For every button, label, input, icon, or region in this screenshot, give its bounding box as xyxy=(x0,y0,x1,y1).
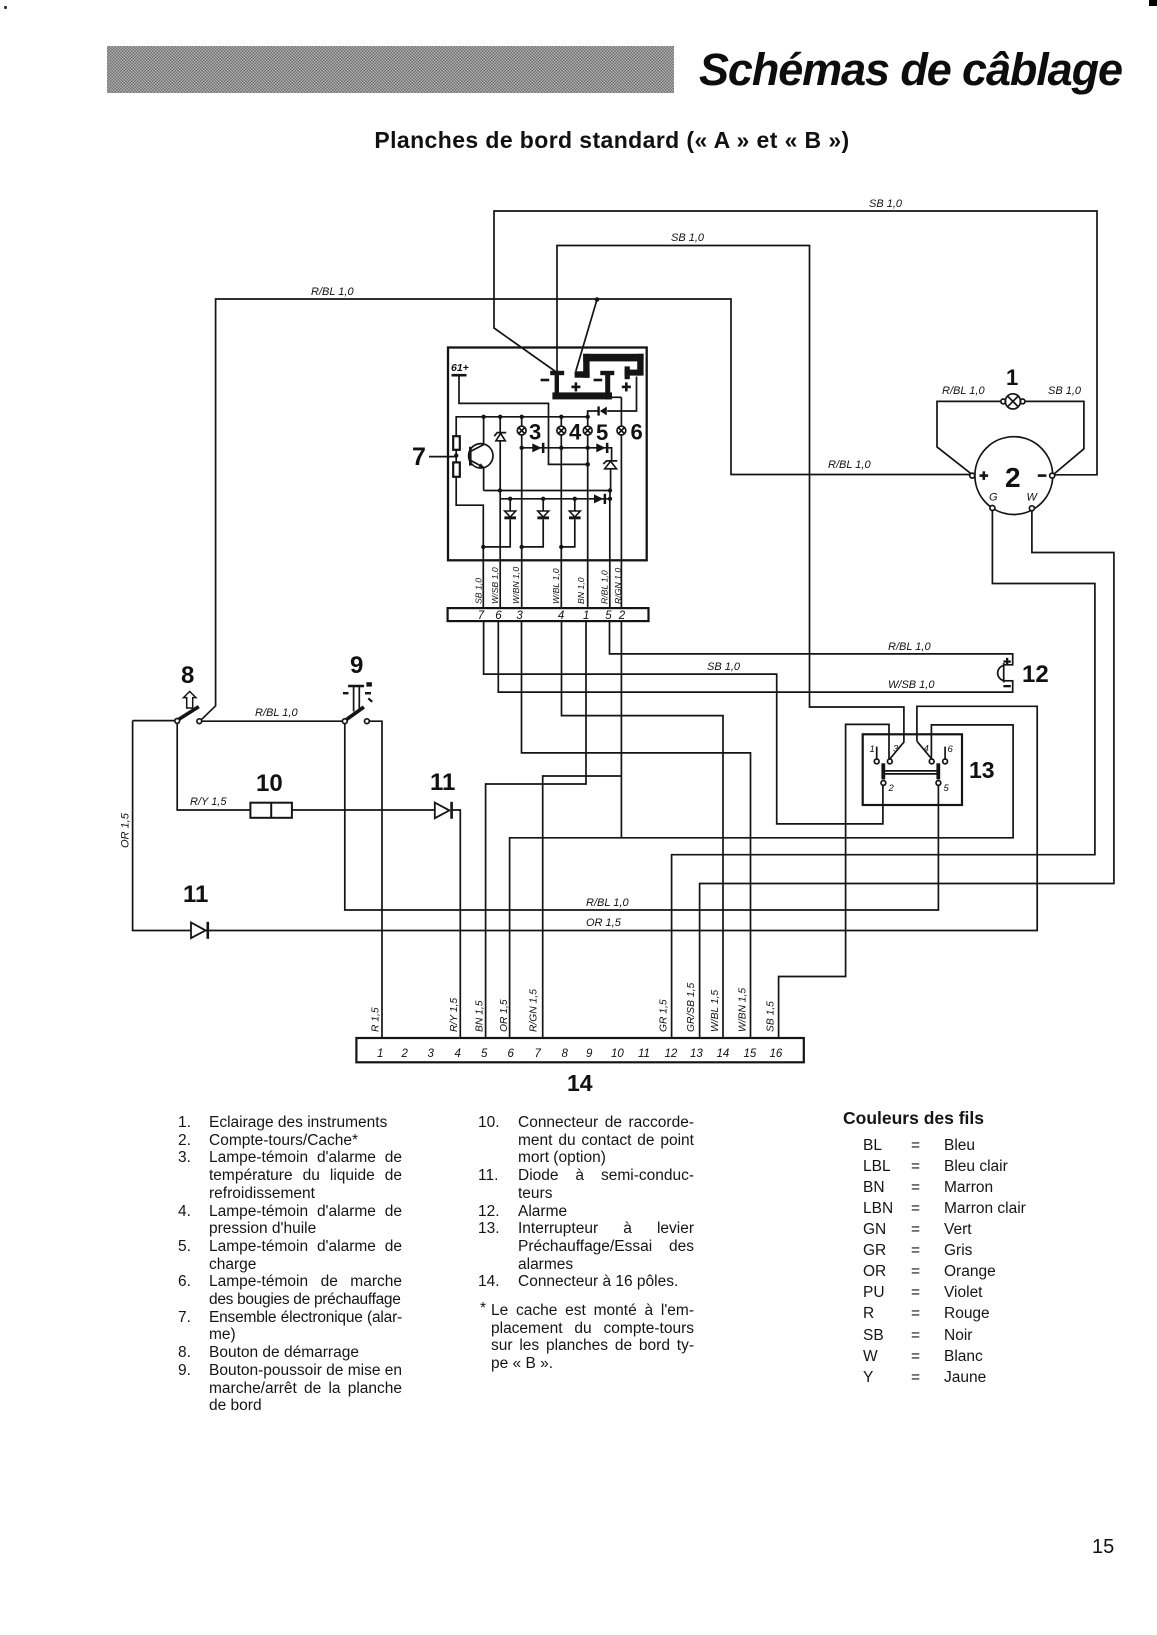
strip 14 pin numbers xyxy=(377,1048,783,1060)
svg-text:W/SB 1,0: W/SB 1,0 xyxy=(888,679,935,691)
bus A horizontal in box 7 xyxy=(456,417,588,436)
svg-text:R/GN 1,5: R/GN 1,5 xyxy=(529,989,540,1032)
junction dot 61+ feed xyxy=(585,462,590,467)
wire R/BL 1,0 switch 9 to switch 13 pin 5 xyxy=(345,724,939,910)
svg-text:W: W xyxy=(1027,492,1039,504)
svg-text:5: 5 xyxy=(944,783,950,794)
bus B2 with diode D6 xyxy=(500,498,610,500)
wire common run left branch to pin3 contact xyxy=(846,724,889,837)
svg-text:11: 11 xyxy=(183,881,208,908)
svg-text:8: 8 xyxy=(181,662,194,689)
svg-text:W/BN 1,0: W/BN 1,0 xyxy=(511,567,521,604)
connector polarity signs xyxy=(541,379,631,392)
wire button 9 to strip14 pin1 R 1,5 xyxy=(369,721,382,1038)
svg-text:R/BL 1,0: R/BL 1,0 xyxy=(255,707,298,719)
indicator lamp 6 xyxy=(617,426,626,435)
wire SB 1,0 second: connector minus to lever tip pin3 of switch 13 xyxy=(557,246,904,742)
wire pin2 R/GN 1,0 down to common run xyxy=(620,621,622,838)
svg-text:1: 1 xyxy=(870,744,875,755)
wire B1 end to B2 end xyxy=(609,491,611,499)
svg-text:9: 9 xyxy=(586,1048,593,1060)
header halftone gray bar xyxy=(107,46,674,93)
svg-text:W/BL 1,5: W/BL 1,5 xyxy=(710,990,721,1032)
resistor R1 xyxy=(453,436,460,450)
svg-text:1: 1 xyxy=(377,1048,383,1060)
wire lamp1 right to alternator minus xyxy=(1025,401,1084,474)
svg-text:9: 9 xyxy=(350,652,363,679)
svg-text:1: 1 xyxy=(1006,365,1018,390)
page number xyxy=(1092,1536,1114,1559)
svg-text:16: 16 xyxy=(770,1048,783,1060)
alarm 12 xyxy=(998,663,1014,683)
diode D2 on B0 xyxy=(532,443,541,452)
svg-text:4: 4 xyxy=(455,1048,461,1060)
indicator lamp row verticals xyxy=(521,417,523,547)
svg-text:SB 1,5: SB 1,5 xyxy=(766,1001,777,1032)
wire W to strip14 pin13 GR/SB 1,5 xyxy=(700,511,1114,1038)
switch 13 pin 5 terminal xyxy=(936,763,941,785)
connector plug half A thick U (minus) xyxy=(550,371,614,400)
svg-text:7: 7 xyxy=(412,443,426,471)
header title xyxy=(699,44,1122,96)
svg-text:2: 2 xyxy=(1005,462,1021,493)
svg-text:R/BL 1,0: R/BL 1,0 xyxy=(586,897,629,909)
legend column 3: wire colours table xyxy=(843,1110,1143,1388)
zener Z2 with leads xyxy=(522,499,549,547)
wire lamp1 left to alternator plus xyxy=(937,401,1001,473)
junction dot on R/BL xyxy=(595,297,600,302)
diode D5a on B0 xyxy=(596,443,605,452)
svg-text:W/SB 1,0: W/SB 1,0 xyxy=(490,567,500,604)
svg-text:2: 2 xyxy=(888,783,895,794)
alarm 12 polarity signs xyxy=(1003,658,1010,688)
zener Z1 with leads xyxy=(483,499,516,547)
svg-text:4: 4 xyxy=(558,610,564,622)
wire pin3 W/BN 1,0 to strip14 pin15 xyxy=(522,621,751,1038)
wire pin1 BN 1,0 to strip14 pin5 xyxy=(486,621,586,1038)
corner registration mark top-right xyxy=(1149,0,1157,6)
wire pin5 R/BL 1,0 to alarm plus xyxy=(610,621,1013,665)
alternator terminal signs xyxy=(980,471,1047,480)
wire R1-R2 junction to base xyxy=(455,450,457,463)
subtitle xyxy=(278,127,946,154)
svg-text:6: 6 xyxy=(631,420,643,445)
diode 11 on OR wire xyxy=(191,922,208,939)
switch 13 pin 6 xyxy=(943,747,948,764)
legend column 2 xyxy=(478,1114,694,1373)
indicator lamp 5 xyxy=(583,426,592,435)
wire SB 1,5 strip14 pin16 to common run xyxy=(779,838,846,1038)
svg-text:OR 1,5: OR 1,5 xyxy=(120,812,132,848)
wire SB 1,0 top: connector minus to alternator minus xyxy=(494,211,1097,475)
svg-text:1: 1 xyxy=(583,610,589,622)
mid connector strip of unit 7 xyxy=(448,608,649,621)
svg-text:4: 4 xyxy=(569,420,582,445)
strip 14 rotated wire labels xyxy=(371,983,777,1032)
svg-text:R/BL 1,0: R/BL 1,0 xyxy=(942,385,985,397)
bus B1 xyxy=(484,490,610,492)
wire R/BL 1,0 between buttons 8 and 9 xyxy=(202,720,343,722)
svg-text:SB 1,0: SB 1,0 xyxy=(1048,385,1082,397)
svg-text:13: 13 xyxy=(690,1048,703,1060)
wire pin4 W/BL 1,0 to strip14 pin14 xyxy=(562,621,724,1038)
svg-text:14: 14 xyxy=(717,1048,730,1060)
svg-text:13: 13 xyxy=(969,757,995,783)
svg-text:R/BL 1,0: R/BL 1,0 xyxy=(888,641,931,653)
start button 8 xyxy=(133,691,202,723)
wire from 61+ to lamp5 line xyxy=(459,375,588,464)
svg-text:SB 1,0: SB 1,0 xyxy=(671,232,705,244)
svg-text:3: 3 xyxy=(516,610,523,622)
pin exit wires to connector strip xyxy=(482,547,484,608)
diode D3 cathode-left at connector feed xyxy=(588,377,637,417)
switch 13 enclosure xyxy=(863,734,962,805)
svg-text:7: 7 xyxy=(478,610,485,622)
svg-text:R 1,5: R 1,5 xyxy=(371,1007,382,1032)
svg-text:3: 3 xyxy=(428,1048,435,1060)
svg-text:G: G xyxy=(989,492,998,504)
resistor R2 xyxy=(453,462,460,476)
switch 13 pin 3 with lever xyxy=(887,742,904,764)
svg-text:R/BL 1,0: R/BL 1,0 xyxy=(311,286,354,298)
svg-text:6: 6 xyxy=(495,610,502,622)
svg-text:R/BL 1,0: R/BL 1,0 xyxy=(828,459,871,471)
svg-text:2: 2 xyxy=(401,1048,409,1060)
indicator lamp 4 xyxy=(557,426,566,435)
svg-text:OR 1,5: OR 1,5 xyxy=(586,917,622,929)
svg-text:SB 1,0: SB 1,0 xyxy=(474,578,484,604)
diode 11 on R/Y wire xyxy=(435,802,452,819)
svg-text:W/BN 1,5: W/BN 1,5 xyxy=(738,988,749,1032)
svg-text:W/BL 1,0: W/BL 1,0 xyxy=(551,568,561,604)
svg-text:7: 7 xyxy=(535,1048,542,1060)
wire R/BL 1,0 main: start button 8 to alternator plus xyxy=(201,299,970,720)
svg-text:SB 1,0: SB 1,0 xyxy=(869,198,903,210)
instrument lamp 1 xyxy=(1001,394,1025,409)
wire pin6 W/SB 1,0 to alarm minus xyxy=(498,621,1012,692)
legend column 1 xyxy=(178,1114,402,1415)
wire R2 bottom elbow to pin 7 line xyxy=(456,477,483,547)
wire R/BL branch diagonal into connector plus pin xyxy=(576,300,597,372)
mid strip pin numbers xyxy=(478,610,626,622)
svg-text:10: 10 xyxy=(256,770,283,797)
switch 13 pin 1 xyxy=(874,747,879,764)
switch 13 pin 2 terminal xyxy=(881,763,886,785)
bottom junction dots in box 7 xyxy=(481,545,563,549)
transistor Q1 xyxy=(469,444,493,468)
svg-text:GR/SB 1,5: GR/SB 1,5 xyxy=(686,983,697,1032)
connector plug half B thick bracket (plus) xyxy=(575,354,644,379)
diode D1 zener cathode-up xyxy=(494,417,506,499)
svg-text:GR 1,5: GR 1,5 xyxy=(659,999,670,1032)
svg-text:R/Y 1,5: R/Y 1,5 xyxy=(449,998,460,1032)
switch 13 pin 4 with lever xyxy=(917,742,934,764)
svg-text:5: 5 xyxy=(481,1048,488,1060)
indicator lamp 3 xyxy=(517,426,526,435)
svg-text:11: 11 xyxy=(430,769,455,796)
svg-text:4: 4 xyxy=(924,744,929,755)
zener Z4 top xyxy=(603,461,617,491)
electronic unit 7 box outline xyxy=(448,348,647,561)
wire connector 10 to diode 11 xyxy=(292,809,435,811)
svg-text:R/BL 1,0: R/BL 1,0 xyxy=(599,570,609,604)
wire G to strip14 pin12 GR 1,5 xyxy=(672,511,1095,1039)
svg-text:6: 6 xyxy=(508,1048,515,1060)
alternator 2 xyxy=(970,437,1055,515)
wire common run to switch 13 contacts xyxy=(510,725,1013,1038)
zener Z3 with leads xyxy=(561,499,580,547)
svg-text:R/Y 1,5: R/Y 1,5 xyxy=(190,796,227,808)
svg-text:OR 1,5: OR 1,5 xyxy=(499,999,510,1032)
svg-text:14: 14 xyxy=(567,1070,593,1096)
svg-text:61+: 61+ xyxy=(451,362,469,374)
thin link U-bar to lamp6 line xyxy=(611,396,622,398)
wire diode 11 to strip14 pin4 xyxy=(452,810,461,1038)
bus B0 with diodes xyxy=(522,448,612,461)
svg-text:5: 5 xyxy=(605,610,612,622)
wire R/GN branch to strip14 pin7 xyxy=(543,776,622,1038)
svg-text:3: 3 xyxy=(529,420,541,445)
svg-text:10: 10 xyxy=(611,1048,624,1060)
svg-text:2: 2 xyxy=(618,610,626,622)
neutral-start connector 10 xyxy=(250,803,292,818)
svg-text:3: 3 xyxy=(893,744,899,755)
corner registration mark top-left xyxy=(4,6,7,9)
svg-text:BN 1,5: BN 1,5 xyxy=(474,1000,485,1032)
wire OR 1,5 key feed to switch 13 pin4 lever xyxy=(133,706,1038,930)
wire collector to bus A xyxy=(483,417,485,445)
svg-text:BN 1,0: BN 1,0 xyxy=(576,577,586,604)
mid strip rotated wire labels xyxy=(474,567,623,604)
svg-text:5: 5 xyxy=(596,420,608,445)
svg-text:R/GN 1,0: R/GN 1,0 xyxy=(613,568,623,604)
wire pin7 SB 1,0 to switch 13 pin 2 xyxy=(484,621,883,824)
svg-text:6: 6 xyxy=(948,744,954,755)
svg-text:11: 11 xyxy=(638,1048,650,1060)
svg-text:12: 12 xyxy=(665,1048,678,1060)
svg-text:SB 1,0: SB 1,0 xyxy=(707,661,741,673)
on/off push button 9 xyxy=(342,682,372,723)
svg-text:15: 15 xyxy=(744,1048,757,1060)
svg-text:8: 8 xyxy=(562,1048,569,1060)
bus A junction dots xyxy=(481,415,590,419)
wire emitter down to bus B1 xyxy=(483,467,485,490)
switch 13 contact bar xyxy=(884,770,938,772)
16-pole connector strip 14 xyxy=(356,1038,803,1062)
wire R/Y 1,5 from button 8 through connector 10 xyxy=(177,724,250,810)
svg-text:12: 12 xyxy=(1022,661,1049,688)
